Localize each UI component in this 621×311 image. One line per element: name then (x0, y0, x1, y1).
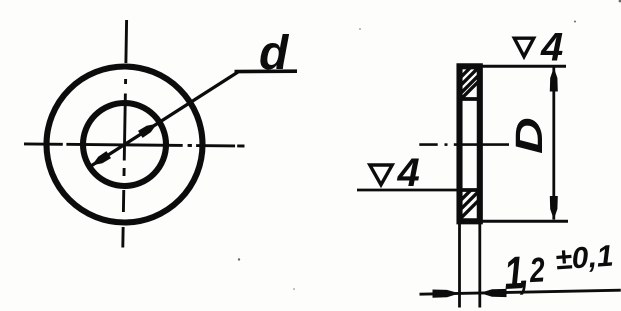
label 1,2 (503, 245, 546, 299)
inner circle (hole dia d) (83, 103, 166, 186)
hole bottom edge line (457, 188, 481, 192)
surface finish symbol left: triangle (370, 165, 392, 185)
D dimension bottom extension line (482, 220, 568, 223)
scan noise dots (238, 0, 621, 290)
svg-text:d: d (259, 27, 290, 80)
arrowhead right of thickness dim (480, 289, 507, 297)
arrowhead bottom of D line (550, 196, 558, 220)
svg-text:±0,1: ±0,1 (554, 240, 614, 277)
d label underline (235, 69, 298, 73)
arrowhead upper-right of d line (138, 124, 157, 138)
surface finish symbol top-right: triangle (514, 38, 533, 56)
vertical centerline (front view) (123, 20, 127, 248)
thickness dimension line (420, 290, 621, 294)
arrowhead top of D line (550, 68, 558, 92)
thickness right extension line (478, 224, 481, 308)
diameter d dimension line / leader (92, 72, 238, 165)
hole top edge line (458, 97, 481, 101)
thickness left extension line (458, 224, 461, 308)
horizontal centerline (front view) (24, 144, 245, 146)
arrowhead lower-left of d line (92, 151, 111, 165)
svg-text:D: D (507, 117, 550, 154)
horizontal centerline (side view) (419, 143, 437, 146)
surface finish leader line (left) (357, 189, 458, 192)
svg-text:4: 4 (540, 26, 563, 70)
arrowhead left of thickness dim (433, 290, 460, 298)
D dimension line (552, 68, 555, 220)
washer section outline (side view) (460, 66, 480, 221)
outer circle (washer outside dia) (47, 67, 203, 223)
hatching top block (455, 50, 488, 105)
D dimension top extension line (478, 65, 566, 68)
hatching bottom block (450, 173, 488, 229)
svg-text:2: 2 (528, 250, 546, 290)
svg-text:4: 4 (397, 151, 420, 195)
